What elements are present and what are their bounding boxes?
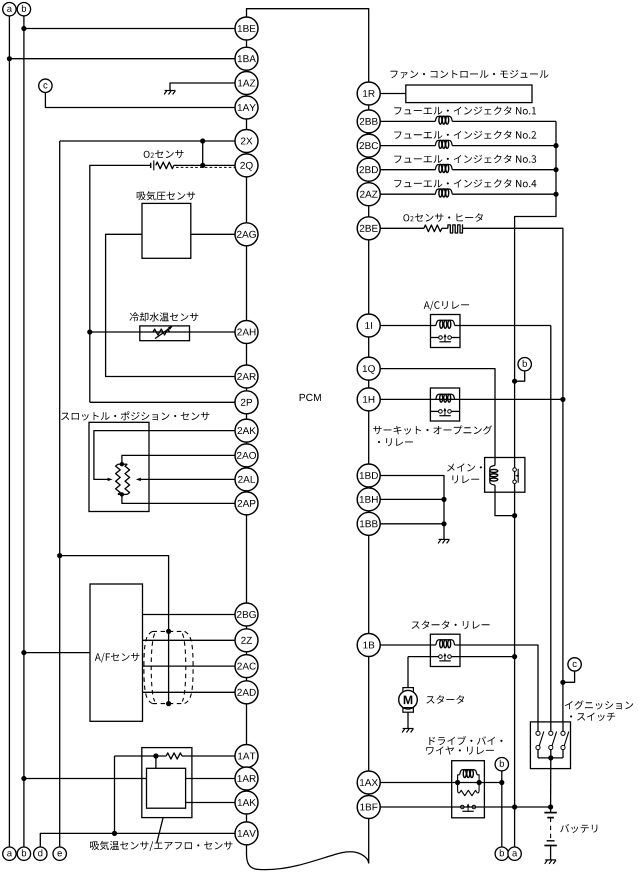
- label ignition switch line2: [570, 713, 615, 722]
- resistor TPS element 1: [116, 464, 121, 494]
- junction DBW coil left: [455, 780, 460, 785]
- wire 1AT resistor branch: [115, 755, 167, 757]
- resistor intake air temp sensor: [166, 753, 182, 759]
- wire intake pressure sensor to 2AG: [191, 233, 235, 235]
- label intake air temp / airflow sensor: [90, 841, 232, 851]
- PCM terminal 1BB: [357, 512, 380, 535]
- fan control module box: [406, 85, 532, 103]
- contact starter relay: [408, 656, 439, 658]
- connector d bottom: [34, 847, 47, 860]
- PCM terminal 2AH: [235, 321, 258, 344]
- junction TPS resistor bottom: [120, 492, 124, 496]
- wire 2BG to A/F sensor: [143, 614, 236, 616]
- PCM terminal 1AV: [235, 822, 258, 845]
- inductor circuit opening relay coil: [436, 394, 455, 399]
- wire IAT junction to element: [155, 756, 157, 768]
- wire 2X to e-line: [60, 140, 235, 142]
- connector c left: [39, 79, 52, 92]
- connector e bottom: [53, 847, 66, 860]
- intake pressure sensor box: [142, 203, 191, 258]
- wire b-line to A/F sensor box: [24, 652, 90, 654]
- wire connector b drop line: [23, 16, 25, 847]
- connector c right: [568, 658, 581, 671]
- label circuit opening relay line1: [373, 425, 492, 434]
- PCM terminal 1H: [357, 388, 380, 411]
- label starter motor: [426, 695, 464, 704]
- junction injector bus No.3: [553, 167, 558, 172]
- label main relay line1: [447, 463, 482, 471]
- label PCM: [300, 394, 321, 401]
- wire 1Q to main relay coil: [380, 369, 495, 466]
- PCM terminal 1AZ: [235, 72, 258, 95]
- PCM terminal 2BD: [357, 158, 380, 181]
- wire O2 sensor to 2Q: [174, 164, 235, 166]
- wire 2Z to A/F sensor: [143, 639, 236, 641]
- wire 1I to A/C relay: [380, 325, 436, 327]
- inductor fuel injector No.4 coil: [435, 189, 452, 194]
- wire 2BB to injector No.1: [380, 120, 435, 122]
- inductor fuel injector No.1 coil: [435, 116, 452, 121]
- junction e-line / shield wire: [57, 553, 62, 558]
- junction 2Q wire / O2 branch: [200, 163, 205, 168]
- A/C relay box: [431, 315, 461, 348]
- PCM terminal 1BF: [357, 796, 380, 819]
- junction main relay output: [512, 513, 517, 518]
- label circuit opening relay line2: [378, 438, 413, 446]
- wire 1R to fan control module: [380, 93, 406, 95]
- wire ignition switch common bus: [538, 757, 563, 759]
- wire 2BE to heater: [380, 227, 424, 229]
- PCM terminal 2AG: [235, 223, 258, 246]
- inductor fuel injector No.3 coil: [435, 165, 452, 170]
- wire 2AP from TPS resistor bottom: [122, 494, 235, 503]
- circuit opening relay box: [430, 388, 459, 421]
- wire A/C relay output vertical: [550, 326, 552, 722]
- PCM terminal 1BA: [235, 47, 258, 70]
- wire 1H to heater vertical: [380, 398, 563, 400]
- ignition switch pole 2: [550, 722, 552, 731]
- wire 2P from O2 branch corner: [90, 401, 235, 403]
- contact A/C relay: [431, 337, 439, 339]
- wire PCM bottom S-link 1AV to 1BF: [247, 844, 369, 870]
- PCM terminal 2BE: [357, 217, 380, 240]
- battery cells: [550, 807, 552, 813]
- wire left PCM column spine: [246, 29, 248, 834]
- wire 1BD to ground bus: [380, 476, 444, 540]
- wire starter motor to ground: [407, 712, 409, 728]
- wire PCM top link 1BE to 1R: [247, 9, 369, 82]
- wire 2AD to A/F sensor: [143, 691, 236, 693]
- junction b-line / 1AR: [21, 776, 26, 781]
- wire 2BD to injector No.3: [380, 169, 435, 171]
- PCM terminal 2Q: [235, 154, 258, 177]
- junction injector bus No.4: [553, 192, 558, 197]
- junction ground bus / 1BH: [441, 497, 446, 502]
- wire 2BC to injector No.2: [380, 145, 435, 147]
- label drive-by-wire relay line1: [429, 736, 502, 745]
- label intake pressure sensor: [137, 191, 196, 200]
- label throttle position sensor: [61, 411, 209, 420]
- wire 1AY to connector c: [45, 92, 235, 107]
- coolant temp sensor box: [140, 326, 190, 341]
- connector b bottom: [17, 847, 30, 860]
- wire battery to ground: [550, 846, 552, 860]
- PCM terminal 2AC: [235, 655, 258, 678]
- PCM terminal 2X: [235, 130, 258, 153]
- label fan control module: [390, 70, 548, 79]
- wire 2AZ to injector No.4: [380, 193, 435, 195]
- PCM terminal 1AY: [235, 96, 258, 119]
- wire 1AZ to ground: [170, 83, 235, 91]
- junction ground bus / 1BB: [441, 521, 446, 526]
- wire 2AL into TPS: [141, 478, 236, 480]
- PCM terminal 2AZ: [357, 183, 380, 206]
- wire 2AC to A/F sensor: [143, 665, 236, 667]
- airflow sensor inner box: [147, 768, 186, 808]
- PCM terminal 2AK: [235, 419, 258, 442]
- inductor fuel injector No.2 coil: [435, 140, 452, 145]
- wire e-line to shield: [60, 556, 169, 632]
- drive-by-wire relay box: [452, 761, 485, 818]
- ground at starter motor: [402, 729, 413, 733]
- wire O2 sensor dashed signal line: [176, 166, 236, 168]
- PCM terminal 1Q: [357, 357, 380, 380]
- wire coolant temp sensor to 2AH: [90, 331, 235, 333]
- shield drain wire: [168, 631, 170, 703]
- wire injector No.1 to bus: [452, 120, 556, 122]
- ignition switch box: [530, 722, 570, 769]
- label battery: [560, 824, 597, 833]
- wire 2AO to TPS resistor top: [122, 455, 235, 464]
- inductor starter relay coil: [436, 640, 455, 645]
- junction DBW coil right: [477, 780, 482, 785]
- wire O2 sensor left segment: [90, 165, 151, 402]
- junction shield top: [166, 629, 171, 634]
- wire 2AK into TPS: [94, 431, 235, 480]
- PCM terminal 1BE: [235, 17, 258, 40]
- thermistor coolant sensor: [153, 329, 170, 335]
- junction TPS resistor top: [120, 462, 124, 466]
- wire connector a drop line: [8, 16, 10, 847]
- junction IAT resistor / element: [153, 753, 158, 758]
- connector c right stub: [563, 671, 575, 682]
- junction 1AV wire / IAT branch: [112, 831, 117, 836]
- wire 1BB to ground bus: [380, 523, 444, 525]
- label O2 sensor heater: [403, 214, 409, 221]
- PCM terminal 2AD: [235, 681, 258, 704]
- wire airflow element to 1AR: [186, 778, 235, 780]
- ground at battery: [545, 860, 556, 864]
- PCM terminal 1AX: [357, 771, 380, 794]
- wire IAT branch vertical: [114, 756, 116, 833]
- wire starter relay contact to motor: [407, 657, 409, 688]
- PCM terminal 1BH: [357, 488, 380, 511]
- wire 1AR to airflow element: [24, 778, 147, 780]
- wire branch 2X to 2Q: [202, 141, 204, 165]
- PCM terminal 2BC: [357, 134, 380, 157]
- connector a top: [3, 3, 16, 16]
- junction 1H / heater vertical: [560, 397, 565, 402]
- TPS wiper arrow right: [136, 478, 141, 481]
- wire injector No.4 to bus: [452, 193, 556, 195]
- connector b at DBW relay: [495, 758, 508, 771]
- label fuel injector No.1: [394, 106, 536, 115]
- wire injector No.2 to bus: [452, 145, 556, 147]
- PCM terminal 1AK: [235, 791, 258, 814]
- junction ignition switch common: [548, 755, 553, 760]
- connector b bottom right: [495, 847, 508, 860]
- label main relay line2: [452, 475, 479, 483]
- contact circuit opening relay: [430, 410, 438, 412]
- junction DBW / b vertical: [499, 780, 504, 785]
- label fuel injector No.4: [394, 179, 536, 188]
- connector a bottom right: [508, 847, 521, 860]
- wire right PCM column spine: [368, 94, 370, 808]
- pointer line airflow sensor label: [157, 818, 163, 843]
- ground at 1BD/1BH/1BB: [438, 539, 449, 543]
- airflow sensor outer box: [142, 748, 192, 818]
- junction battery top: [548, 804, 553, 809]
- PCM terminal 2AL: [235, 468, 258, 491]
- wire 1B to starter relay coil: [380, 644, 436, 646]
- connector b top: [17, 3, 30, 16]
- junction 2X wire / O2 branch: [200, 138, 205, 143]
- wire TPS resistor bottom tie: [118, 493, 127, 495]
- PCM terminal 2AP: [235, 492, 258, 515]
- label drive-by-wire relay line2: [426, 746, 494, 754]
- contact main relay: [513, 468, 517, 472]
- TPS wiper arrow left: [108, 478, 113, 481]
- wire main relay coil bottom: [495, 485, 515, 515]
- ignition switch pole 3: [562, 722, 564, 731]
- PCM terminal 2Z: [235, 629, 258, 652]
- label coolant temp sensor: [130, 312, 199, 321]
- PCM terminal 1I: [357, 314, 380, 337]
- PCM terminal 2AO: [235, 444, 258, 467]
- wire 1BH to ground bus: [380, 498, 444, 500]
- junction injector bus No.2: [553, 143, 558, 148]
- wire b vertical: [501, 771, 503, 847]
- wire intake pressure sensor to 2AR: [106, 234, 235, 376]
- PCM terminal 1B: [357, 634, 380, 657]
- wire injector bus: [515, 121, 556, 847]
- PCM terminal 2P: [235, 391, 258, 414]
- inductor A/C relay coil: [436, 320, 455, 325]
- wire injector No.3 to bus: [452, 169, 556, 171]
- wire heater to vertical: [463, 228, 563, 722]
- throttle position sensor box: [89, 422, 149, 511]
- label A/F sensor: [95, 653, 140, 663]
- label ignition switch line1: [565, 700, 633, 709]
- O2 sensor cell symbol: [150, 163, 152, 168]
- wire TPS resistor top tie: [118, 463, 127, 465]
- wire 1AV to d-line: [40, 833, 235, 847]
- connector a bottom: [3, 847, 16, 860]
- junction a-line / 1BA: [7, 56, 12, 61]
- label O2 sensor: [144, 151, 150, 158]
- junction 1BF wire / a-line: [512, 804, 517, 809]
- wire 1BA to a-line: [9, 58, 235, 60]
- label fuel injector No.3: [394, 155, 536, 164]
- starter relay box: [430, 634, 460, 666]
- PCM terminal 2BB: [357, 110, 380, 133]
- junction b-line / 1BE: [21, 26, 26, 31]
- heater element symbol: [448, 225, 463, 233]
- resistor O2 sensor: [156, 162, 174, 169]
- ground at 1AZ wire: [164, 91, 175, 95]
- label fuel injector No.2: [394, 131, 536, 140]
- label starter relay: [412, 621, 490, 630]
- resistor TPS element 2: [125, 464, 130, 494]
- contact DBW relay: [461, 805, 465, 809]
- wire airflow element to 1AK: [186, 802, 235, 804]
- PCM terminal 1AT: [235, 745, 258, 768]
- ignition switch pole 1: [537, 722, 539, 731]
- A/F sensor box: [90, 584, 143, 721]
- PCM terminal 1R: [357, 82, 380, 105]
- PCM terminal 1BD: [357, 464, 380, 487]
- starter motor M: [403, 688, 414, 693]
- wire e-line vertical: [59, 141, 61, 847]
- wire 1AX through DBW relay: [380, 782, 502, 784]
- junction starter contact / a-line: [512, 654, 517, 659]
- wire right column bottom stub below 1BF: [368, 807, 370, 863]
- junction b-line / A/F sensor: [21, 650, 26, 655]
- main relay box: [485, 458, 525, 493]
- wire ignition switch to battery: [550, 758, 552, 807]
- wire 1BE to b-line: [24, 28, 235, 30]
- junction c stub / heater vertical: [560, 680, 565, 685]
- resistor O2 sensor heater: [424, 225, 442, 232]
- connector b main relay stub: [515, 371, 525, 381]
- shield dashed cable symbol: [144, 631, 153, 703]
- PCM terminal 1AR: [235, 767, 258, 790]
- label A/C relay: [424, 301, 469, 311]
- DBW relay coil loop: [458, 775, 460, 783]
- wire 1BF to battery junction: [380, 806, 550, 808]
- wire starter relay coil to ignition switch: [455, 645, 538, 722]
- junction O2 line / coolant sensor: [87, 329, 92, 334]
- PCM terminal 2BG: [235, 603, 258, 626]
- PCM terminal 2AR: [235, 365, 258, 388]
- inductor main relay coil: [490, 465, 495, 485]
- wire A/C relay coil out: [455, 325, 551, 327]
- junction shield bottom: [166, 701, 171, 706]
